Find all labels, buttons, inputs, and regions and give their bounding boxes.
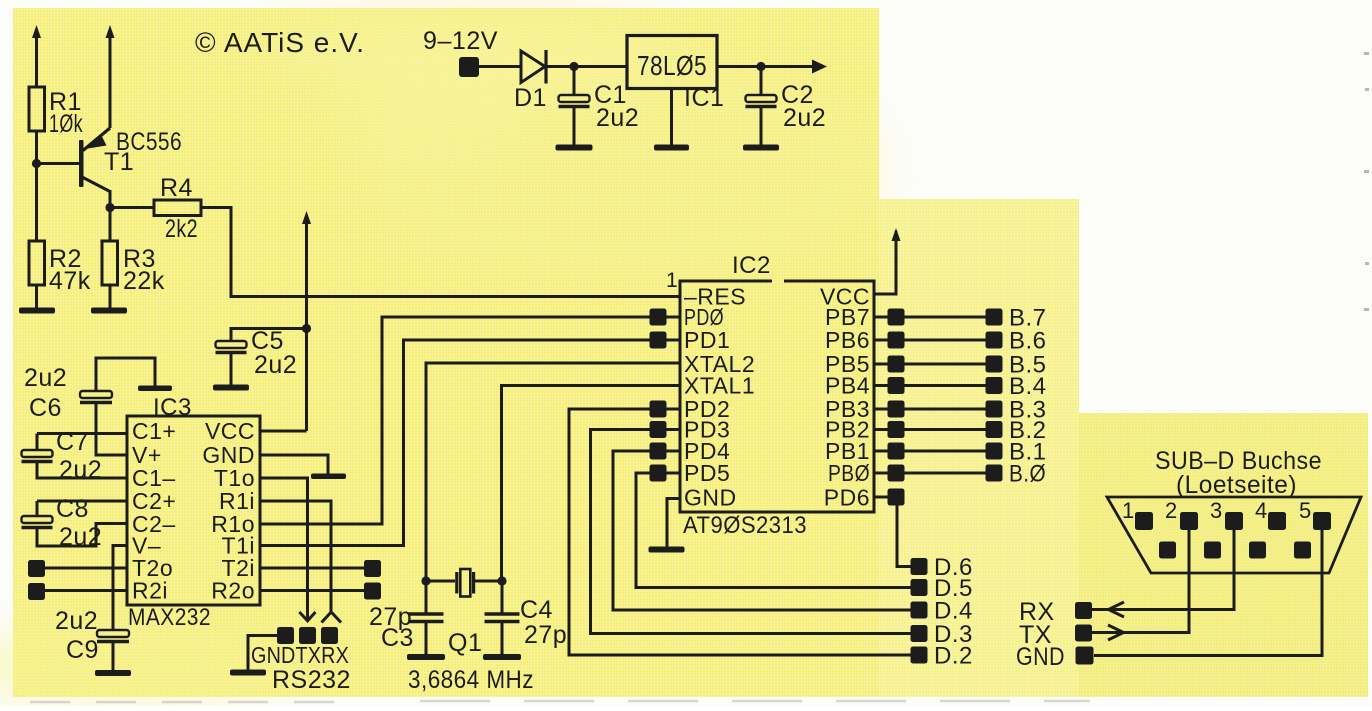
arrow up on RX wire: [322, 612, 342, 623]
wire RS232 gnd: [248, 636, 277, 671]
capacitor C2: [746, 67, 827, 146]
wire GND (IC3): [260, 455, 328, 474]
IC3 right pin labels: [202, 418, 255, 604]
node crystal left: [421, 576, 430, 585]
svg-text:R2i: R2i: [132, 578, 168, 604]
wire PB1 to B.1: [904, 450, 986, 453]
node C1 tap: [569, 62, 578, 71]
pin 8 (SUB-D): [1249, 542, 1266, 559]
pin 3 (SUB-D): [1225, 512, 1243, 530]
svg-text:IC2: IC2: [732, 252, 771, 279]
svg-text:IC3: IC3: [153, 394, 192, 421]
speck marks: [1364, 52, 1369, 311]
ground (C1): [556, 145, 593, 151]
svg-text:C9: C9: [66, 636, 99, 664]
wire IC2 GND: [667, 499, 680, 548]
arrow down to TX pad: [299, 612, 315, 621]
wire R2 to ground: [35, 285, 38, 308]
svg-text:2k2: 2k2: [165, 215, 198, 243]
wire to V+: [96, 434, 127, 456]
svg-text:47k: 47k: [49, 267, 91, 295]
svg-text:78LØ5: 78LØ5: [637, 50, 707, 81]
pad B.6: [986, 332, 1003, 349]
svg-text:XTAL1: XTAL1: [684, 373, 755, 399]
capacitor C3: [369, 581, 444, 655]
wire C1+ node: [37, 432, 127, 435]
ground (C3): [407, 654, 445, 660]
pad RX (SUB-D): [1075, 602, 1092, 619]
wire PD5 to D.5: [636, 473, 911, 588]
ground (C9): [95, 670, 131, 676]
resistor R3: [102, 241, 165, 295]
svg-text:C6: C6: [29, 394, 62, 422]
wire R1i to RX: [260, 501, 331, 612]
svg-text:VCC: VCC: [205, 418, 255, 444]
ground (IC2): [649, 547, 685, 553]
wire IC1 out: [717, 65, 813, 68]
pad D.3: [911, 625, 928, 642]
wire pin5 to GND: [1094, 530, 1322, 656]
wire PD4 to D.4: [613, 451, 911, 610]
wire VCC (IC3): [260, 430, 307, 433]
ground (R3): [91, 308, 127, 314]
pad PB2: [874, 428, 888, 431]
node collector junction: [105, 203, 114, 212]
pad PD1: [650, 332, 667, 349]
pad B.2: [986, 421, 1003, 438]
wire V- to C9: [113, 546, 127, 631]
svg-text:(Loetseite): (Loetseite): [1176, 471, 1297, 499]
wire R1 to base node: [35, 131, 38, 164]
pad PB3: [874, 408, 888, 411]
wire PD6 to D.6: [897, 505, 911, 567]
svg-text:2u2: 2u2: [596, 104, 639, 132]
VCC rail arrow (MAX232): [302, 211, 311, 431]
wire collector node to R3: [109, 208, 112, 242]
pad PB5: [874, 363, 888, 366]
svg-text:B.6: B.6: [1009, 328, 1047, 355]
pad RS232 GND: [277, 627, 294, 644]
resistor R4: [154, 174, 201, 243]
capacitor C5: [216, 327, 307, 385]
ground (RS232): [230, 670, 266, 676]
wire PB3 to B.3: [904, 408, 986, 411]
wire R1o to PD0: [260, 317, 650, 524]
svg-text:1: 1: [1122, 498, 1135, 523]
scan streak: [30, 701, 1090, 702]
pin 1 (SUB-D): [1135, 512, 1153, 530]
pad PD4: [650, 443, 667, 460]
svg-text:C8: C8: [56, 495, 89, 523]
svg-text:R4: R4: [160, 174, 193, 202]
svg-text:9–12V: 9–12V: [423, 27, 498, 55]
svg-text:PD1: PD1: [684, 327, 730, 353]
wire pin3 to RX: [1092, 530, 1234, 610]
pin 9 (SUB-D): [1294, 542, 1311, 559]
IC3 left pin labels: [132, 418, 176, 604]
pad B.Ø: [986, 465, 1003, 482]
wire collector node to R4: [110, 206, 154, 209]
svg-text:4: 4: [1255, 498, 1268, 523]
svg-text:PD5: PD5: [684, 460, 730, 486]
wire XTAL1: [502, 386, 681, 582]
node base junction: [32, 159, 41, 168]
VCC arrow rail 2 (emitter): [106, 25, 115, 128]
resistor R1: [29, 87, 83, 138]
svg-text:2u2: 2u2: [24, 364, 67, 392]
pad D.5: [911, 579, 928, 596]
pad GND (SUB-D): [1076, 647, 1094, 665]
pad D.6: [911, 558, 928, 575]
node crystal right: [497, 576, 506, 585]
pad B.4: [986, 377, 1003, 394]
pad PB1: [874, 450, 888, 453]
wire PD2 to D.2: [569, 409, 911, 655]
pad B.5: [986, 356, 1003, 373]
wire R4 to -RES net: [201, 208, 680, 297]
terminal 9-12V: [423, 27, 498, 77]
ground (IC1): [654, 145, 689, 151]
wire T1i to PD1: [260, 340, 650, 546]
svg-text:C4: C4: [520, 596, 553, 624]
pad T2o: [28, 560, 45, 577]
capacitor C7: [22, 428, 128, 484]
wire PB5 to B.5: [904, 363, 986, 366]
pad D.4: [911, 602, 928, 619]
wire R3 to ground: [109, 285, 112, 308]
capacitor C1: [559, 67, 640, 146]
node C5 tap: [302, 324, 311, 333]
svg-text:22k: 22k: [123, 267, 165, 295]
svg-text:1: 1: [666, 269, 678, 292]
svg-text:2u2: 2u2: [55, 607, 98, 635]
pad TX (SUB-D): [1075, 625, 1092, 642]
pad RS232 TX: [299, 627, 316, 644]
pin 2 (SUB-D): [1180, 512, 1198, 530]
pad PB6: [874, 339, 888, 342]
wire IC2 VCC arrow: [874, 228, 901, 294]
svg-text:GND: GND: [1016, 643, 1065, 671]
ground (C6): [138, 386, 172, 392]
wire T1o to TX: [260, 478, 308, 621]
wire base node to R2: [35, 164, 38, 242]
wire R2i: [45, 589, 127, 592]
svg-text:PBØ: PBØ: [828, 460, 870, 486]
pad PB7: [874, 316, 888, 319]
pad B.3: [986, 401, 1003, 418]
svg-text:PB6: PB6: [825, 327, 870, 353]
svg-text:RS232: RS232: [272, 666, 351, 694]
pin 4 (SUB-D): [1268, 512, 1286, 530]
transistor T1 BC556: [79, 128, 182, 208]
wire XTAL2: [426, 363, 680, 581]
wire PB0 to B.Ø: [904, 472, 986, 475]
svg-text:MAX232: MAX232: [128, 604, 211, 631]
svg-text:2: 2: [1165, 498, 1178, 523]
wire PB2 to B.2: [904, 428, 986, 431]
pad PD0: [650, 309, 667, 326]
svg-text:T1: T1: [104, 148, 134, 176]
svg-text:D.2: D.2: [934, 643, 973, 670]
pin 7 (SUB-D): [1204, 542, 1221, 559]
capacitor C8: [22, 495, 128, 551]
arrow +5V out: [812, 60, 827, 74]
svg-text:3: 3: [1210, 498, 1223, 523]
svg-text:R2o: R2o: [211, 578, 255, 604]
capacitor C4: [485, 581, 568, 655]
capacitor C6: [24, 358, 155, 434]
capacitor C9: [55, 607, 129, 671]
VCC arrow rail 1: [32, 25, 41, 87]
diode D1: [514, 50, 547, 112]
pad B.1: [986, 443, 1003, 460]
pad PB0: [874, 472, 888, 475]
svg-text:2u2: 2u2: [59, 456, 102, 484]
wire PD3 to D.3: [591, 430, 912, 634]
svg-text:IC1: IC1: [684, 84, 724, 112]
IC2 left pin labels: [684, 284, 755, 511]
svg-text:2u2: 2u2: [254, 351, 297, 379]
ground (IC3 GND): [311, 474, 346, 480]
op-amp-IC U IC3 MAX232 box: [127, 394, 260, 631]
wire base: [37, 162, 81, 165]
pad R2o: [364, 583, 381, 600]
resistor R2: [29, 241, 91, 295]
svg-text:B.Ø: B.Ø: [1009, 461, 1046, 488]
svg-text:D1: D1: [514, 84, 547, 112]
svg-text:GND: GND: [684, 485, 737, 511]
wire IC1 gnd: [670, 89, 673, 146]
ground (C2): [743, 145, 779, 151]
pin 5 (SUB-D): [1313, 512, 1331, 530]
pad PD2: [650, 401, 667, 418]
wire PB4 to B.4: [904, 384, 986, 387]
pad PD3: [650, 421, 667, 438]
pad R2i: [28, 583, 45, 600]
svg-text:3,6864 MHz: 3,6864 MHz: [408, 666, 534, 694]
IC2 right pin labels: [820, 284, 870, 511]
svg-text:1Øk: 1Øk: [49, 110, 83, 138]
node C2 tap: [756, 62, 765, 71]
wire T2o: [45, 567, 127, 570]
wire T2i: [260, 567, 364, 570]
svg-text:C1+: C1+: [132, 418, 176, 444]
pad PB4: [874, 384, 888, 387]
svg-text:27p: 27p: [524, 621, 567, 649]
svg-text:GNDTXRX: GNDTXRX: [251, 642, 349, 668]
arrow to RX: [1109, 602, 1125, 617]
microcontroller IC2 AT90S2313 box: [666, 252, 874, 539]
ground (C4): [483, 654, 521, 660]
wire D1 to IC1: [546, 65, 627, 68]
wire R2o: [260, 589, 364, 592]
pad T2i: [364, 560, 381, 577]
svg-text:PD6: PD6: [824, 485, 870, 511]
ground (C5): [213, 385, 249, 391]
pad RS232 RX: [321, 627, 338, 644]
pad PD5: [650, 465, 667, 482]
wire terminal to D1: [479, 65, 521, 68]
crystal Q1 3.6864 MHz: [408, 569, 534, 694]
svg-text:C3: C3: [381, 624, 414, 652]
svg-text:PB4: PB4: [825, 373, 870, 399]
svg-text:5: 5: [1299, 498, 1312, 523]
svg-text:2u2: 2u2: [783, 104, 826, 132]
svg-text:© AATiS e.V.: © AATiS e.V.: [195, 27, 365, 58]
ground (R2): [19, 308, 55, 314]
wire C2+: [37, 500, 127, 503]
svg-text:C7: C7: [56, 428, 89, 456]
pad D.2: [911, 647, 928, 664]
pad B.7: [986, 309, 1003, 326]
svg-text:AT9ØS2313: AT9ØS2313: [683, 512, 807, 539]
pad PD6: [888, 489, 905, 506]
pin 6 (SUB-D): [1159, 542, 1176, 559]
connector body (trapezoid): [1107, 497, 1361, 573]
wire pin2 to TX: [1092, 530, 1189, 633]
regulator IC1 78L05: [627, 36, 724, 113]
wire PB6 to B.6: [904, 339, 986, 342]
arrow to pin2: [1108, 625, 1124, 640]
svg-text:Q1: Q1: [448, 629, 482, 657]
svg-text:2u2: 2u2: [59, 523, 102, 551]
wire PB7 to B.7: [904, 316, 986, 319]
